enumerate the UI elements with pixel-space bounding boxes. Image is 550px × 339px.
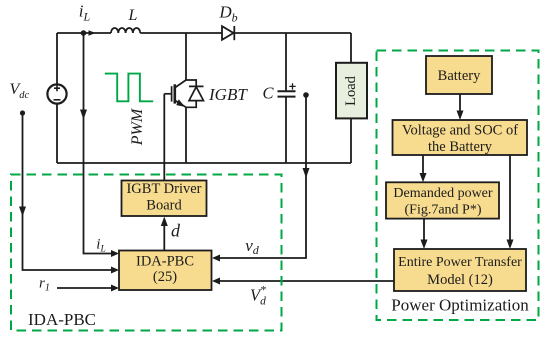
wire bottom rail [57,162,351,164]
node junction iL dot [81,30,87,36]
wire r1 [57,287,114,289]
wire source bottom [56,104,58,163]
svg-text:Voltage and SOC of: Voltage and SOC of [402,123,518,139]
box IDA-PBC U-controller [119,251,212,291]
channel bar [174,84,177,103]
cap plus sign [289,83,295,89]
wire soc to demanded [422,155,424,176]
svg-text:IGBT Driver: IGBT Driver [126,181,201,197]
inductor L [111,28,140,33]
svg-text:C: C [263,84,275,103]
node vd tap dot [303,92,309,98]
PWM waveform [105,74,153,102]
svg-text:IDA-PBC: IDA-PBC [28,310,96,329]
freewheel diode wiring [186,80,196,107]
svg-text:IGBT: IGBT [208,85,248,104]
dashed region Power Optimization [377,51,539,321]
gate bar [171,86,173,101]
wire d control [163,225,165,251]
svg-text:Battery: Battery [438,68,481,84]
wire load top [350,33,352,63]
gate lead [164,93,171,95]
transistor IGBT [164,33,203,163]
wire top rail mid segment [140,32,222,34]
svg-text:Entire Power Transfer: Entire Power Transfer [398,255,522,270]
wire vd sense [217,95,306,258]
wire top rail right segment [234,32,351,34]
wire demanded to model [423,219,425,242]
box Voltage and SOC [393,120,528,155]
svg-text:L: L [128,7,138,24]
load resistor box [336,63,367,119]
svg-text:IDA-PBC: IDA-PBC [136,254,194,270]
emitter diagonal [175,101,186,108]
svg-text:the Battery: the Battery [428,139,493,155]
wire soc to model right [509,155,511,242]
emitter arrowhead [176,99,185,107]
freewheel diode [189,86,204,100]
wire top rail left segment [57,32,111,34]
svg-text:(25): (25) [153,269,177,285]
capacitor C [278,91,296,96]
wire iL sense [84,33,115,254]
box IGBT Driver Board [122,181,207,217]
wire cap top [285,33,287,91]
diode Db [222,26,234,40]
svg-text:Board: Board [146,198,182,214]
svg-text:d: d [171,221,181,241]
dashed region IDA-PBC [11,175,282,331]
svg-text:Power Optimization: Power Optimization [391,296,529,315]
box Demanded power [386,182,499,218]
collector wire [185,33,187,80]
svg-text:Model (12): Model (12) [427,272,493,288]
svg-text:Load: Load [343,75,359,106]
box Battery [426,56,492,94]
wire gate to driver board [163,94,165,180]
wire Vdc sense [23,113,115,270]
node Vdc tap dot [20,110,25,115]
svg-text:Vd*: Vd* [250,283,266,308]
wire source top [56,33,58,84]
box Entire Power Transfer Model [394,249,526,291]
svg-text:PWM: PWM [129,107,146,146]
emitter wire [185,107,187,163]
wire cap bottom [285,97,287,163]
svg-text:Demanded power: Demanded power [393,186,492,201]
wire battery to soc [459,94,461,113]
wire Vd* setpoint [217,280,394,282]
current arrow iL [89,30,96,35]
wire load bottom [350,118,352,163]
voltage source Vdc [47,84,66,103]
collector diagonal [175,80,186,88]
svg-text:(Fig.7and P*): (Fig.7and P*) [405,203,482,218]
